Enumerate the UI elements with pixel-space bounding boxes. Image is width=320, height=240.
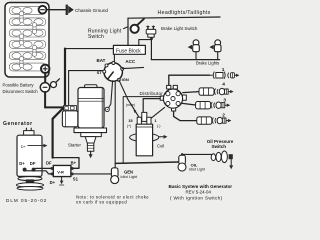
svg-text:(-): (-) <box>157 124 161 128</box>
svg-text:DF: DF <box>46 161 52 166</box>
svg-text:2: 2 <box>222 113 225 119</box>
svg-text:D+: D+ <box>19 161 25 166</box>
svg-text:V-R: V-R <box>57 169 64 174</box>
svg-text:ACC: ACC <box>125 59 135 64</box>
svg-text:( With Ignition Switch): ( With Ignition Switch) <box>170 195 223 200</box>
svg-text:Chassis Ground: Chassis Ground <box>75 8 108 13</box>
svg-text:Fuse Block: Fuse Block <box>116 48 141 54</box>
svg-text:B+: B+ <box>71 161 77 166</box>
svg-text:Starter: Starter <box>68 143 81 148</box>
svg-text:1: 1 <box>222 67 225 73</box>
svg-text:Headlights/Taillights: Headlights/Taillights <box>158 10 211 16</box>
svg-text:Possible Battery: Possible Battery <box>3 83 35 88</box>
svg-text:ST: ST <box>97 70 103 75</box>
svg-text:Switch: Switch <box>212 144 227 149</box>
svg-text:15: 15 <box>128 118 133 123</box>
svg-text:Brake Light Switch: Brake Light Switch <box>161 26 198 31</box>
svg-text:Brake Lights: Brake Lights <box>196 60 219 65</box>
svg-text:Switch: Switch <box>88 34 104 40</box>
svg-text:on carb if so equipped: on carb if so equipped <box>76 200 127 205</box>
svg-text:Idiot Light: Idiot Light <box>120 174 138 179</box>
svg-text:(note): (note) <box>126 103 135 107</box>
svg-text:D+: D+ <box>50 180 56 185</box>
svg-text:S1: S1 <box>73 177 79 182</box>
svg-text:DLM 05-20-02: DLM 05-20-02 <box>6 198 47 203</box>
svg-text:4: 4 <box>222 82 225 88</box>
svg-text:IGN: IGN <box>122 77 129 82</box>
svg-text:REV 5-24-04: REV 5-24-04 <box>186 189 212 194</box>
svg-text:DF: DF <box>30 161 36 166</box>
svg-text:Coil: Coil <box>157 144 164 149</box>
svg-text:Generator: Generator <box>3 121 33 127</box>
svg-text:Distributor: Distributor <box>140 91 164 96</box>
svg-text:BAT: BAT <box>97 58 106 63</box>
svg-text:(+): (+) <box>127 124 132 128</box>
svg-text:D+: D+ <box>21 145 27 149</box>
svg-text:3: 3 <box>223 97 226 103</box>
svg-text:Idiot Light: Idiot Light <box>189 167 205 171</box>
svg-text:Disconnect Switch: Disconnect Switch <box>3 89 39 94</box>
